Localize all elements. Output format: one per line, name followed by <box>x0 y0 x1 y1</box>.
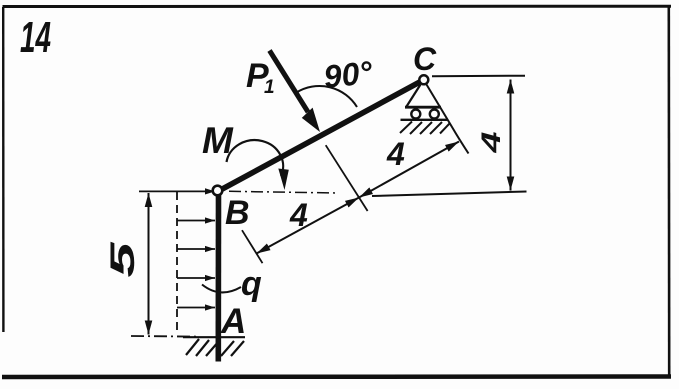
svg-text:M: M <box>202 120 234 161</box>
svg-text:C: C <box>413 41 437 77</box>
svg-text:A: A <box>220 302 246 341</box>
leader line for q <box>202 285 241 293</box>
moment M arc <box>227 140 284 176</box>
extension line top for right dimension <box>432 75 525 78</box>
pin node B <box>213 186 223 196</box>
roller support at C: triangle <box>407 85 421 107</box>
dimension 5 line <box>148 193 150 335</box>
bar AB <box>216 191 222 362</box>
svg-text:4: 4 <box>476 132 506 154</box>
distributed load q dashed boundary line <box>176 192 178 335</box>
distributed load arrow 5 <box>177 307 215 309</box>
extension line bottom for right dimension <box>372 192 527 197</box>
roller support at C: triangle right side + extension line from C <box>427 85 469 154</box>
svg-text:4: 4 <box>386 136 405 172</box>
distributed load arrow 1 (top, on extension line) <box>139 190 215 192</box>
force P1 vector <box>270 51 309 113</box>
dimension line BC segment 2 (label 4) <box>359 142 459 198</box>
svg-text:1: 1 <box>264 77 275 98</box>
pin node C <box>419 75 428 84</box>
svg-text:90°: 90° <box>322 54 374 95</box>
roller circle 1 <box>411 110 420 119</box>
svg-text:14: 14 <box>20 13 51 62</box>
distributed load arrow 2 <box>177 220 215 222</box>
svg-text:q: q <box>241 265 262 303</box>
distributed load arrow 4 <box>177 277 215 279</box>
ground line under rollers <box>401 119 448 121</box>
svg-text:B: B <box>225 194 250 232</box>
fixed support ground at A <box>183 337 245 356</box>
extension line from midpoint for BC dimension <box>326 145 368 211</box>
distributed load arrow 3 <box>177 248 215 250</box>
svg-text:5: 5 <box>104 241 142 278</box>
svg-text:4: 4 <box>289 197 308 233</box>
bar BC <box>220 81 423 191</box>
dimension 4 line (right vertical) <box>510 80 512 191</box>
extension line from B for BC dimension <box>242 230 263 263</box>
roller circle 2 <box>430 110 439 119</box>
ground hatching at C <box>400 122 450 135</box>
wire dash-dot centerline at A ground level <box>131 335 196 338</box>
dimension line BC segment 1 (label 4) <box>257 198 360 254</box>
90 degree angle arc <box>297 86 358 107</box>
wire dash-dot centerline at B level <box>229 191 337 193</box>
